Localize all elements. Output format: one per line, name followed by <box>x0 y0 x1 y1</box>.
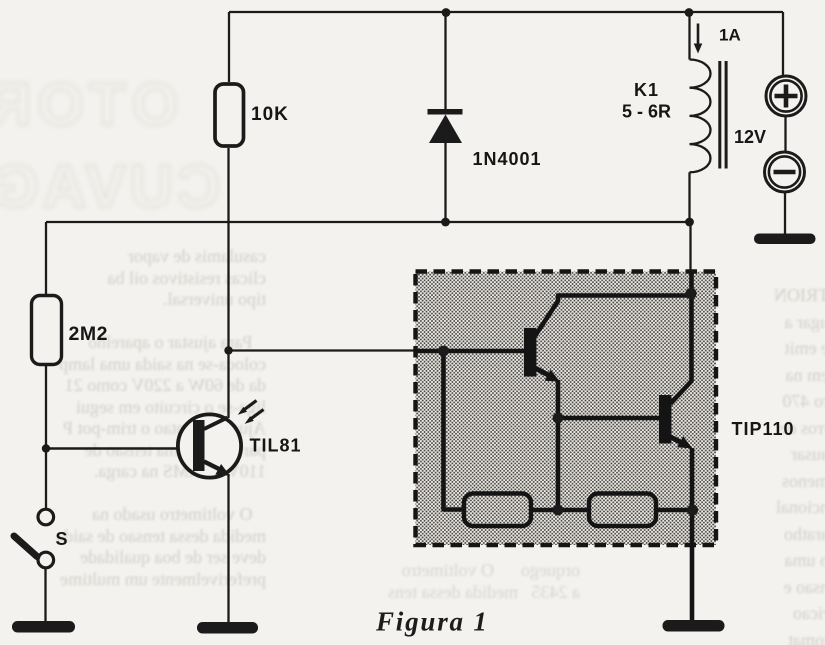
svg-text:5 - 6R: 5 - 6R <box>622 102 671 122</box>
svg-text:S: S <box>56 529 68 549</box>
svg-text:12V: 12V <box>734 127 766 147</box>
svg-text:K1: K1 <box>634 80 659 100</box>
svg-text:2M2: 2M2 <box>69 323 108 345</box>
svg-text:10K: 10K <box>251 104 289 125</box>
svg-text:1N4001: 1N4001 <box>473 149 542 169</box>
svg-text:1A: 1A <box>719 26 741 45</box>
svg-text:Figura 1: Figura 1 <box>375 607 489 637</box>
svg-text:TIL81: TIL81 <box>250 436 302 456</box>
svg-text:TIP110: TIP110 <box>732 419 795 439</box>
